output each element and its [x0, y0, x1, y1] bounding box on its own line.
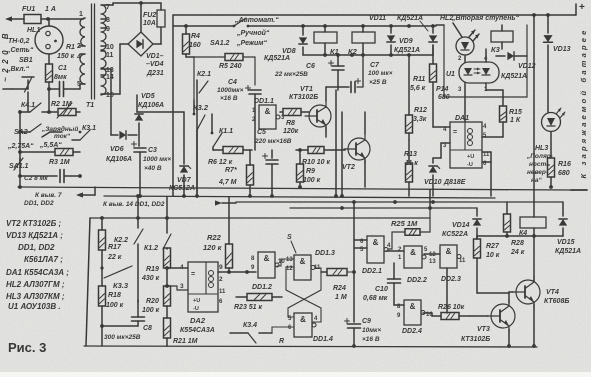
resistor R18 — [99, 286, 124, 346]
transformer T1 secondary winding — [101, 4, 114, 99]
transformer T1 label — [86, 102, 94, 109]
gate DD2.3 — [440, 245, 466, 313]
wire bus y209 — [290, 196, 477, 210]
contact K3.2 — [193, 103, 209, 198]
gate DD1.3 — [286, 250, 335, 280]
terminal mains lower — [3, 88, 28, 90]
component list — [6, 219, 69, 311]
lamp HL2 second stage — [440, 15, 520, 55]
capacitor C4 — [217, 79, 261, 150]
wire rail x342 — [340, 112, 344, 198]
capacitor C8 — [102, 300, 152, 341]
gate DD2.1 — [355, 236, 391, 275]
diode VD12 — [496, 52, 536, 80]
label to pin 14 — [103, 200, 236, 208]
diode VD13 — [543, 13, 570, 112]
resistor R17 — [99, 230, 122, 286]
switch SB1 — [6, 57, 34, 112]
wire bus pin14 — [104, 196, 495, 198]
capacitor C3 — [132, 142, 172, 198]
gate DD2.2 — [386, 246, 440, 284]
label R input — [279, 338, 284, 345]
capacitor C6 — [274, 55, 344, 90]
resistor R15 — [482, 90, 522, 137]
wire mains input with terminal arrow — [5, 16, 24, 21]
resistor R19 — [141, 248, 171, 286]
contact K1.1 — [211, 114, 234, 150]
wire to pin7 bus — [18, 176, 22, 189]
resistor R24 — [321, 240, 356, 322]
diode VD14 — [442, 208, 481, 239]
wire top bus — [171, 15, 576, 196]
diode VD6 — [106, 131, 137, 163]
resistor R20 — [142, 286, 171, 318]
wire stage box — [436, 25, 527, 97]
relay K4 — [519, 13, 546, 237]
capacitor C9 — [345, 318, 382, 348]
switch SA1.1 — [9, 158, 29, 170]
wire left rail — [18, 110, 22, 178]
wire secondary top to FU2 — [105, 3, 161, 5]
relay K2 — [348, 26, 375, 56]
fuse FU1 — [22, 6, 83, 24]
terminal minus — [571, 189, 587, 191]
comparator DA2 — [180, 262, 226, 334]
resistor R21 — [164, 318, 198, 346]
contact K2.1 with R5 — [194, 54, 255, 115]
wires flipflop cross — [277, 259, 321, 322]
resistor R1 — [46, 44, 76, 112]
diode VD9 — [387, 27, 420, 55]
wire bus y203 — [236, 200, 563, 204]
resistor R22 — [203, 218, 233, 272]
capacitor C1 — [47, 65, 80, 97]
diode VD15 — [555, 202, 581, 255]
wire bus drops into box — [136, 190, 430, 240]
wire bottom box frame — [84, 218, 537, 347]
diode VD5 — [135, 93, 164, 146]
switch SA2 current selector — [7, 124, 78, 150]
optocoupler U1 — [446, 49, 503, 122]
transformer T1 primary winding — [77, 11, 85, 88]
resistor R28 — [504, 202, 525, 256]
resistor R14 label — [436, 86, 450, 101]
resistor R27 — [474, 236, 510, 293]
zener VD7 — [139, 112, 195, 198]
diode VD11 — [369, 15, 437, 55]
wire rail x336 — [334, 90, 338, 198]
relay K3 — [491, 25, 513, 54]
gate DD1.2 — [251, 252, 285, 291]
resistor R25 — [388, 206, 432, 249]
resistor R12 — [406, 55, 427, 140]
wire DA2 pin4 pin3 — [165, 266, 188, 290]
label S input — [287, 234, 296, 253]
contact K2.2 — [100, 216, 143, 302]
wire K4 bottom join — [477, 234, 563, 238]
resistor R9 — [297, 148, 321, 189]
diode VD8 — [264, 27, 307, 62]
label to charged battery — [579, 27, 588, 178]
fuse FU2 — [143, 3, 165, 44]
capacitor C5 — [254, 129, 292, 198]
resistor R3 — [18, 149, 80, 167]
transistor VT1 — [289, 86, 331, 137]
transistor VT3 — [461, 292, 515, 348]
contact K1.2 — [144, 216, 171, 252]
wire bus pin7 — [18, 187, 571, 190]
relay K1 — [314, 26, 339, 56]
capacitor C2 — [20, 170, 82, 183]
label Ris 3 — [8, 340, 46, 355]
gate DD1.1 — [252, 98, 285, 129]
resistor R6 — [208, 147, 252, 167]
capacitor C10 — [363, 263, 404, 305]
wire bridge left down — [105, 44, 128, 94]
wire second bus — [173, 24, 436, 28]
resistor R16 — [548, 158, 571, 189]
label ~220V mains — [1, 29, 10, 82]
wire DA2 output — [218, 270, 256, 274]
zener VD10 — [424, 158, 466, 196]
wire rail x197 — [196, 80, 198, 196]
contact K3.3 — [100, 266, 132, 290]
label to pin 7 — [24, 187, 95, 207]
resistor R7 — [218, 150, 254, 198]
resistor R13 — [404, 140, 418, 196]
capacitor C7 — [326, 55, 393, 93]
transistor VT4 — [512, 236, 569, 348]
wire relay common — [303, 53, 433, 57]
resistor R23 — [234, 294, 282, 312]
neon lamp HL1 — [6, 19, 63, 54]
lamp HL3 polarity — [526, 108, 565, 184]
resistor R4 — [183, 26, 201, 57]
wire secondary rail x111 — [105, 69, 111, 135]
transistor VT2 — [342, 112, 370, 187]
wire plus terminal — [576, 2, 585, 15]
resistor R8 — [280, 109, 309, 136]
resistor R11 — [410, 45, 437, 127]
contact K3.1 — [72, 125, 96, 140]
switch SA1.2 mode — [210, 17, 279, 47]
resistor R10 — [296, 147, 345, 167]
diode bridge VD1-VD4 — [128, 1, 164, 77]
comparator DA1 — [433, 115, 491, 196]
transformer T1 core — [92, 4, 95, 99]
resistor R2 trimmer — [51, 101, 80, 118]
resistor R26 — [438, 304, 470, 320]
contact K4.1 — [20, 102, 57, 114]
gate DD1.4 — [288, 313, 333, 343]
gate DD2.4 — [397, 300, 441, 335]
contact K3.4 — [230, 322, 294, 343]
